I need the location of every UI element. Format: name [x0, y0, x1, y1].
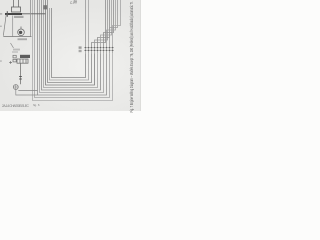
feed bar continuation	[22, 13, 46, 15]
left edge tick 3	[0, 60, 2, 61]
inline connector ticks	[19, 77, 22, 80]
wire 1	[52, 8, 86, 78]
plus mark	[9, 61, 12, 64]
wire 4	[46, 0, 95, 85]
jog wire 5	[104, 0, 114, 47]
terminal square 1	[13, 55, 16, 58]
fuse box outline	[17, 59, 28, 63]
horizontal line to sensor	[3, 36, 31, 38]
fusible link dark box	[20, 55, 30, 58]
jog wire 1	[92, 0, 106, 47]
jog wire 8	[113, 0, 121, 47]
branch to bundle	[18, 90, 37, 92]
thick feed bar	[5, 13, 22, 15]
tick left of bar	[6, 11, 8, 17]
small label mid-left	[13, 49, 20, 51]
jog wire 3	[98, 0, 110, 47]
bottom-left device circle	[13, 85, 18, 90]
device cross mark	[13, 85, 18, 90]
top-left gauge stubs	[14, 0, 19, 7]
connector label 2	[79, 50, 82, 52]
connector through wires	[86, 47, 113, 54]
jog wire 6	[107, 0, 116, 47]
label under bar	[14, 16, 24, 18]
sensor circle	[18, 29, 25, 36]
wire 6	[42, 0, 101, 90]
scanned page background	[0, 0, 141, 111]
jog wire 4	[101, 0, 112, 47]
wire 8	[38, 0, 107, 95]
feed wire B	[88, 0, 90, 47]
junction blob	[43, 5, 47, 9]
connector block pins	[85, 48, 114, 51]
drop line from bar	[12, 16, 14, 37]
svg-text:fig. 6: fig. 6	[33, 103, 40, 107]
small label mid-left line2	[12, 51, 18, 53]
top-left gauge box	[12, 7, 21, 12]
wire 7	[40, 0, 104, 93]
wire 9	[35, 0, 110, 98]
svg-text:2A-14 CHASSIS ELEC: 2A-14 CHASSIS ELEC	[2, 104, 30, 108]
wire 5	[44, 0, 98, 88]
wire 2	[50, 8, 89, 80]
svg-text:Fig. 7 Engine Wiring Diagram –: Fig. 7 Engine Wiring Diagram – Models Ex…	[129, 2, 134, 113]
left edge tick 2	[0, 26, 2, 27]
wire 10	[33, 0, 113, 101]
sensor label	[18, 38, 28, 40]
lead down from fuse box	[20, 63, 22, 84]
left edge tick 1	[0, 13, 2, 14]
short stub vertical	[30, 0, 32, 37]
svg-text:C.I.T: C.I.T	[70, 1, 77, 5]
diagonal tick	[11, 43, 14, 48]
jog wire 2	[95, 0, 108, 47]
feed wire A	[85, 0, 87, 47]
jog wire 7	[110, 0, 118, 47]
lower branch from device	[16, 90, 38, 96]
page right edge	[140, 0, 142, 111]
sensor core	[19, 31, 22, 34]
terminal square 2	[13, 59, 16, 62]
diagonal harness line	[3, 15, 6, 36]
sensor stem	[20, 27, 22, 30]
D mark ticks	[74, 0, 76, 3]
connector label	[79, 46, 82, 48]
wire 3	[48, 0, 92, 83]
